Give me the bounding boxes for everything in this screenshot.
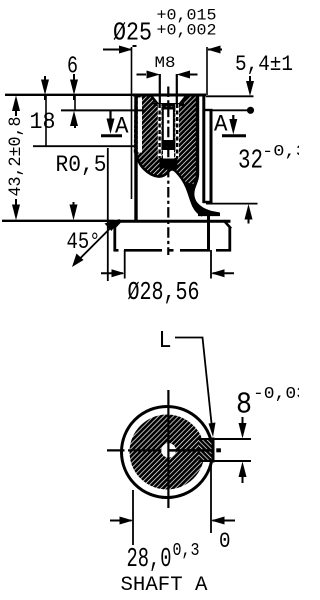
hole solid lines bbox=[162, 110, 164, 141]
S-tail solid black bbox=[185, 182, 221, 216]
svg-text:M8: M8 bbox=[155, 54, 176, 72]
dim 8 bbox=[236, 384, 307, 483]
dim M8 bbox=[137, 54, 198, 104]
svg-text:43,2±0,8: 43,2±0,8 bbox=[6, 117, 26, 197]
dim 5,4±1 bbox=[206, 52, 293, 96]
dim 28,0 bbox=[110, 465, 235, 575]
thread top band bbox=[154, 103, 185, 106]
svg-text:L: L bbox=[159, 328, 172, 355]
svg-text:Ø28,56: Ø28,56 bbox=[128, 277, 200, 307]
thread dashed line right bbox=[175, 104, 179, 158]
drill tip white square bbox=[163, 150, 174, 159]
svg-text:28,0: 28,0 bbox=[127, 545, 172, 575]
left reference line R bbox=[33, 145, 135, 147]
flat rect hatched bbox=[199, 438, 252, 463]
tab top reference line with dot bbox=[212, 107, 254, 114]
hatched disk bbox=[130, 415, 205, 490]
svg-text:32: 32 bbox=[238, 147, 263, 177]
ledge line bbox=[198, 213, 220, 216]
svg-text:0,3: 0,3 bbox=[173, 541, 200, 561]
centerline upper bbox=[167, 87, 169, 256]
thread hole white slot bbox=[163, 110, 175, 141]
section marker A left bbox=[101, 111, 129, 140]
step vertical to flange bbox=[207, 215, 210, 251]
flange chamfer right bbox=[224, 221, 231, 229]
tab interior white bbox=[204, 110, 211, 202]
countersink slant right bbox=[175, 96, 187, 111]
centerline horizontal lower bbox=[107, 449, 125, 451]
left reference line B bbox=[61, 109, 144, 111]
R0,5 label bbox=[56, 148, 108, 281]
svg-text:5,4±1: 5,4±1 bbox=[235, 52, 293, 77]
dim Ø25 bbox=[103, 7, 222, 200]
flange chamfer left bbox=[114, 221, 122, 229]
hatch right boundary thick line bbox=[193, 95, 219, 214]
dim 18 bbox=[30, 109, 79, 135]
flange bottom line dashed segments bbox=[114, 249, 231, 252]
svg-text:SHAFT A: SHAFT A bbox=[121, 574, 209, 597]
body right edge bbox=[202, 94, 205, 204]
dim 6 arrows bbox=[41, 54, 78, 147]
countersink white triangle bbox=[152, 96, 186, 104]
flange top line bbox=[114, 220, 231, 223]
svg-text:-0,3: -0,3 bbox=[262, 143, 299, 161]
flange left edge bbox=[113, 228, 116, 252]
thread bottom black band bbox=[162, 140, 176, 150]
svg-text:8: 8 bbox=[236, 388, 252, 423]
dim 43,2±0,8 bbox=[6, 95, 26, 220]
countersink slant left bbox=[151, 96, 163, 111]
centerline vertical lower bbox=[167, 390, 169, 508]
svg-text:R0,5: R0,5 bbox=[56, 152, 107, 178]
svg-text:-0,03: -0,03 bbox=[253, 384, 299, 403]
left reference line D (flange top ext) bbox=[2, 220, 114, 222]
thread dashed line left bbox=[158, 104, 162, 158]
down arrow onto line D bbox=[70, 202, 78, 220]
body left edge bbox=[134, 94, 137, 223]
tab bottom line bbox=[203, 201, 213, 203]
L leader bbox=[159, 328, 216, 437]
dim 32 bbox=[206, 143, 307, 224]
outer circle bbox=[122, 407, 213, 498]
center hole white bbox=[161, 443, 176, 458]
cavity void (white) bbox=[133, 150, 203, 223]
svg-text:0: 0 bbox=[219, 529, 231, 554]
svg-text:Ø25: Ø25 bbox=[113, 18, 152, 48]
svg-text:18: 18 bbox=[30, 109, 56, 135]
white gap strip right of hatch bbox=[199, 110, 202, 202]
section body hatched mass bbox=[133, 94, 220, 216]
section marker A right bbox=[214, 112, 246, 138]
tab top line bbox=[203, 109, 213, 111]
body top line bbox=[133, 94, 206, 97]
svg-text:+0,002: +0,002 bbox=[157, 22, 217, 40]
svg-text:6: 6 bbox=[67, 54, 78, 81]
tab right edge bbox=[210, 109, 213, 204]
inner white strip left bbox=[138, 98, 142, 153]
svg-text:A: A bbox=[214, 112, 228, 138]
flange right edge bbox=[228, 228, 231, 252]
45° leader bbox=[67, 219, 121, 267]
dim Ø28,56 bbox=[101, 250, 234, 307]
black under hole bbox=[160, 159, 178, 169]
left reference line A (top) bbox=[5, 94, 133, 96]
